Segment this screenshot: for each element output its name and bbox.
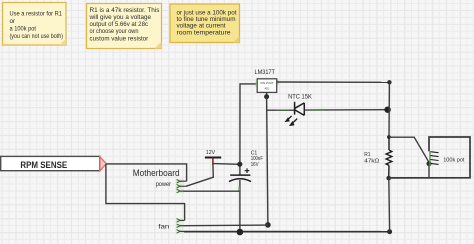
wire: RPM sense tip to power pin 1 xyxy=(106,164,186,181)
green wire segment left of NTC xyxy=(277,109,290,111)
wire: RPM sense tip down to fan pin 1 xyxy=(106,164,185,221)
svg-text:power: power xyxy=(156,181,171,188)
RPM SENSE net flag xyxy=(1,156,107,170)
potentiometer element 100k xyxy=(430,152,439,167)
12V power symbol xyxy=(205,150,221,165)
svg-text:Motherboard: Motherboard xyxy=(133,168,180,178)
svg-text:NTC 15K: NTC 15K xyxy=(288,94,313,101)
wire: NTC cathode to right column xyxy=(304,109,387,111)
svg-text:custom value resistor: custom value resistor xyxy=(90,35,149,42)
motherboard fan pin 2 xyxy=(176,224,184,228)
svg-text:R1 is a 47k resistor. This: R1 is a 47k resistor. This xyxy=(90,7,160,14)
junction node ADJ/fan pin2 xyxy=(265,222,271,228)
junction node pot wiper xyxy=(427,161,432,166)
svg-text:fan: fan xyxy=(158,223,169,230)
svg-text:100k pot: 100k pot xyxy=(443,158,465,164)
wire: ADJ node to NTC anode xyxy=(267,109,295,111)
svg-text:or: or xyxy=(10,18,16,25)
junction node R1 bottom / pot bottom xyxy=(386,176,391,181)
corner node bus/right column xyxy=(387,229,392,234)
wire: fan pin 2 to ADJ node xyxy=(184,224,268,227)
wire: wiper tap to pot wiper xyxy=(389,137,429,162)
svg-text:ADJ: ADJ xyxy=(264,86,270,90)
svg-text:room temperature: room temperature xyxy=(177,29,232,36)
wire: 12V to C1/VIN node xyxy=(214,163,240,166)
sticky note 3 xyxy=(170,4,240,43)
svg-text:47kΩ: 47kΩ xyxy=(364,159,379,165)
sticky note 1 xyxy=(3,3,67,46)
corner node VOUT wire xyxy=(387,80,391,84)
svg-text:Use a resistor for R1: Use a resistor for R1 xyxy=(10,10,63,17)
wire: C1 bottom lead to ground bus xyxy=(239,180,241,232)
wire: right column vertical top segment xyxy=(388,82,390,137)
svg-text:12V: 12V xyxy=(206,150,215,156)
wire: LM317 VOUT to right column top xyxy=(277,81,389,83)
wire: R1 bottom to ground bus xyxy=(388,178,391,232)
svg-text:output of 5.66v at 28c: output of 5.66v at 28c xyxy=(90,21,149,28)
wire: 12V to power pin 2 xyxy=(186,164,213,186)
pot body loop wire xyxy=(389,137,470,178)
thermistor NTC 15K (diode symbol) xyxy=(286,102,304,125)
regulator U1 LM317T xyxy=(256,79,278,93)
svg-text:VIN VOUT: VIN VOUT xyxy=(260,81,274,85)
motherboard fan pin 1 xyxy=(176,218,185,222)
ADJ pin stub and junction xyxy=(266,92,268,96)
motherboard power pin 3 xyxy=(176,189,184,193)
svg-text:(you can not use both): (you can not use both) xyxy=(10,33,64,40)
green pin mark on C1 bottom lead xyxy=(238,187,240,192)
wire: power pin 3 to C1 bottom lead xyxy=(184,190,240,192)
junction node 12V/C1/VIN xyxy=(237,162,242,167)
junction node NTC/right column xyxy=(384,107,390,113)
resistor R1 47k xyxy=(386,137,392,178)
junction node C1/ground bus xyxy=(237,229,244,236)
svg-text:R1: R1 xyxy=(364,152,370,158)
wire: wiper node down to pot bottom rail xyxy=(428,164,430,178)
C1 value labels xyxy=(251,150,264,168)
motherboard power pin 1 xyxy=(176,179,187,183)
wire: ADJ down to fan pin 2 node xyxy=(267,97,268,225)
svg-text:16V: 16V xyxy=(251,162,259,168)
junction node wiper tap xyxy=(387,135,391,139)
ground bus wire: fan pin 3 along bottom xyxy=(184,231,390,233)
svg-text:LM317T: LM317T xyxy=(255,69,275,76)
motherboard fan pin 3 xyxy=(176,229,184,233)
capacitor C1 xyxy=(229,168,251,181)
green wire segment right of NTC xyxy=(309,109,324,111)
motherboard power pin 2 xyxy=(176,184,186,188)
svg-text:will give you a voltage: will give you a voltage xyxy=(88,14,151,21)
svg-text:a 100k pot: a 100k pot xyxy=(10,26,37,33)
sticky note 2 xyxy=(87,4,162,49)
svg-text:or choose your own: or choose your own xyxy=(90,28,139,35)
svg-text:RPM SENSE: RPM SENSE xyxy=(20,160,67,171)
wire: VIN of LM317 left and down xyxy=(240,84,258,175)
